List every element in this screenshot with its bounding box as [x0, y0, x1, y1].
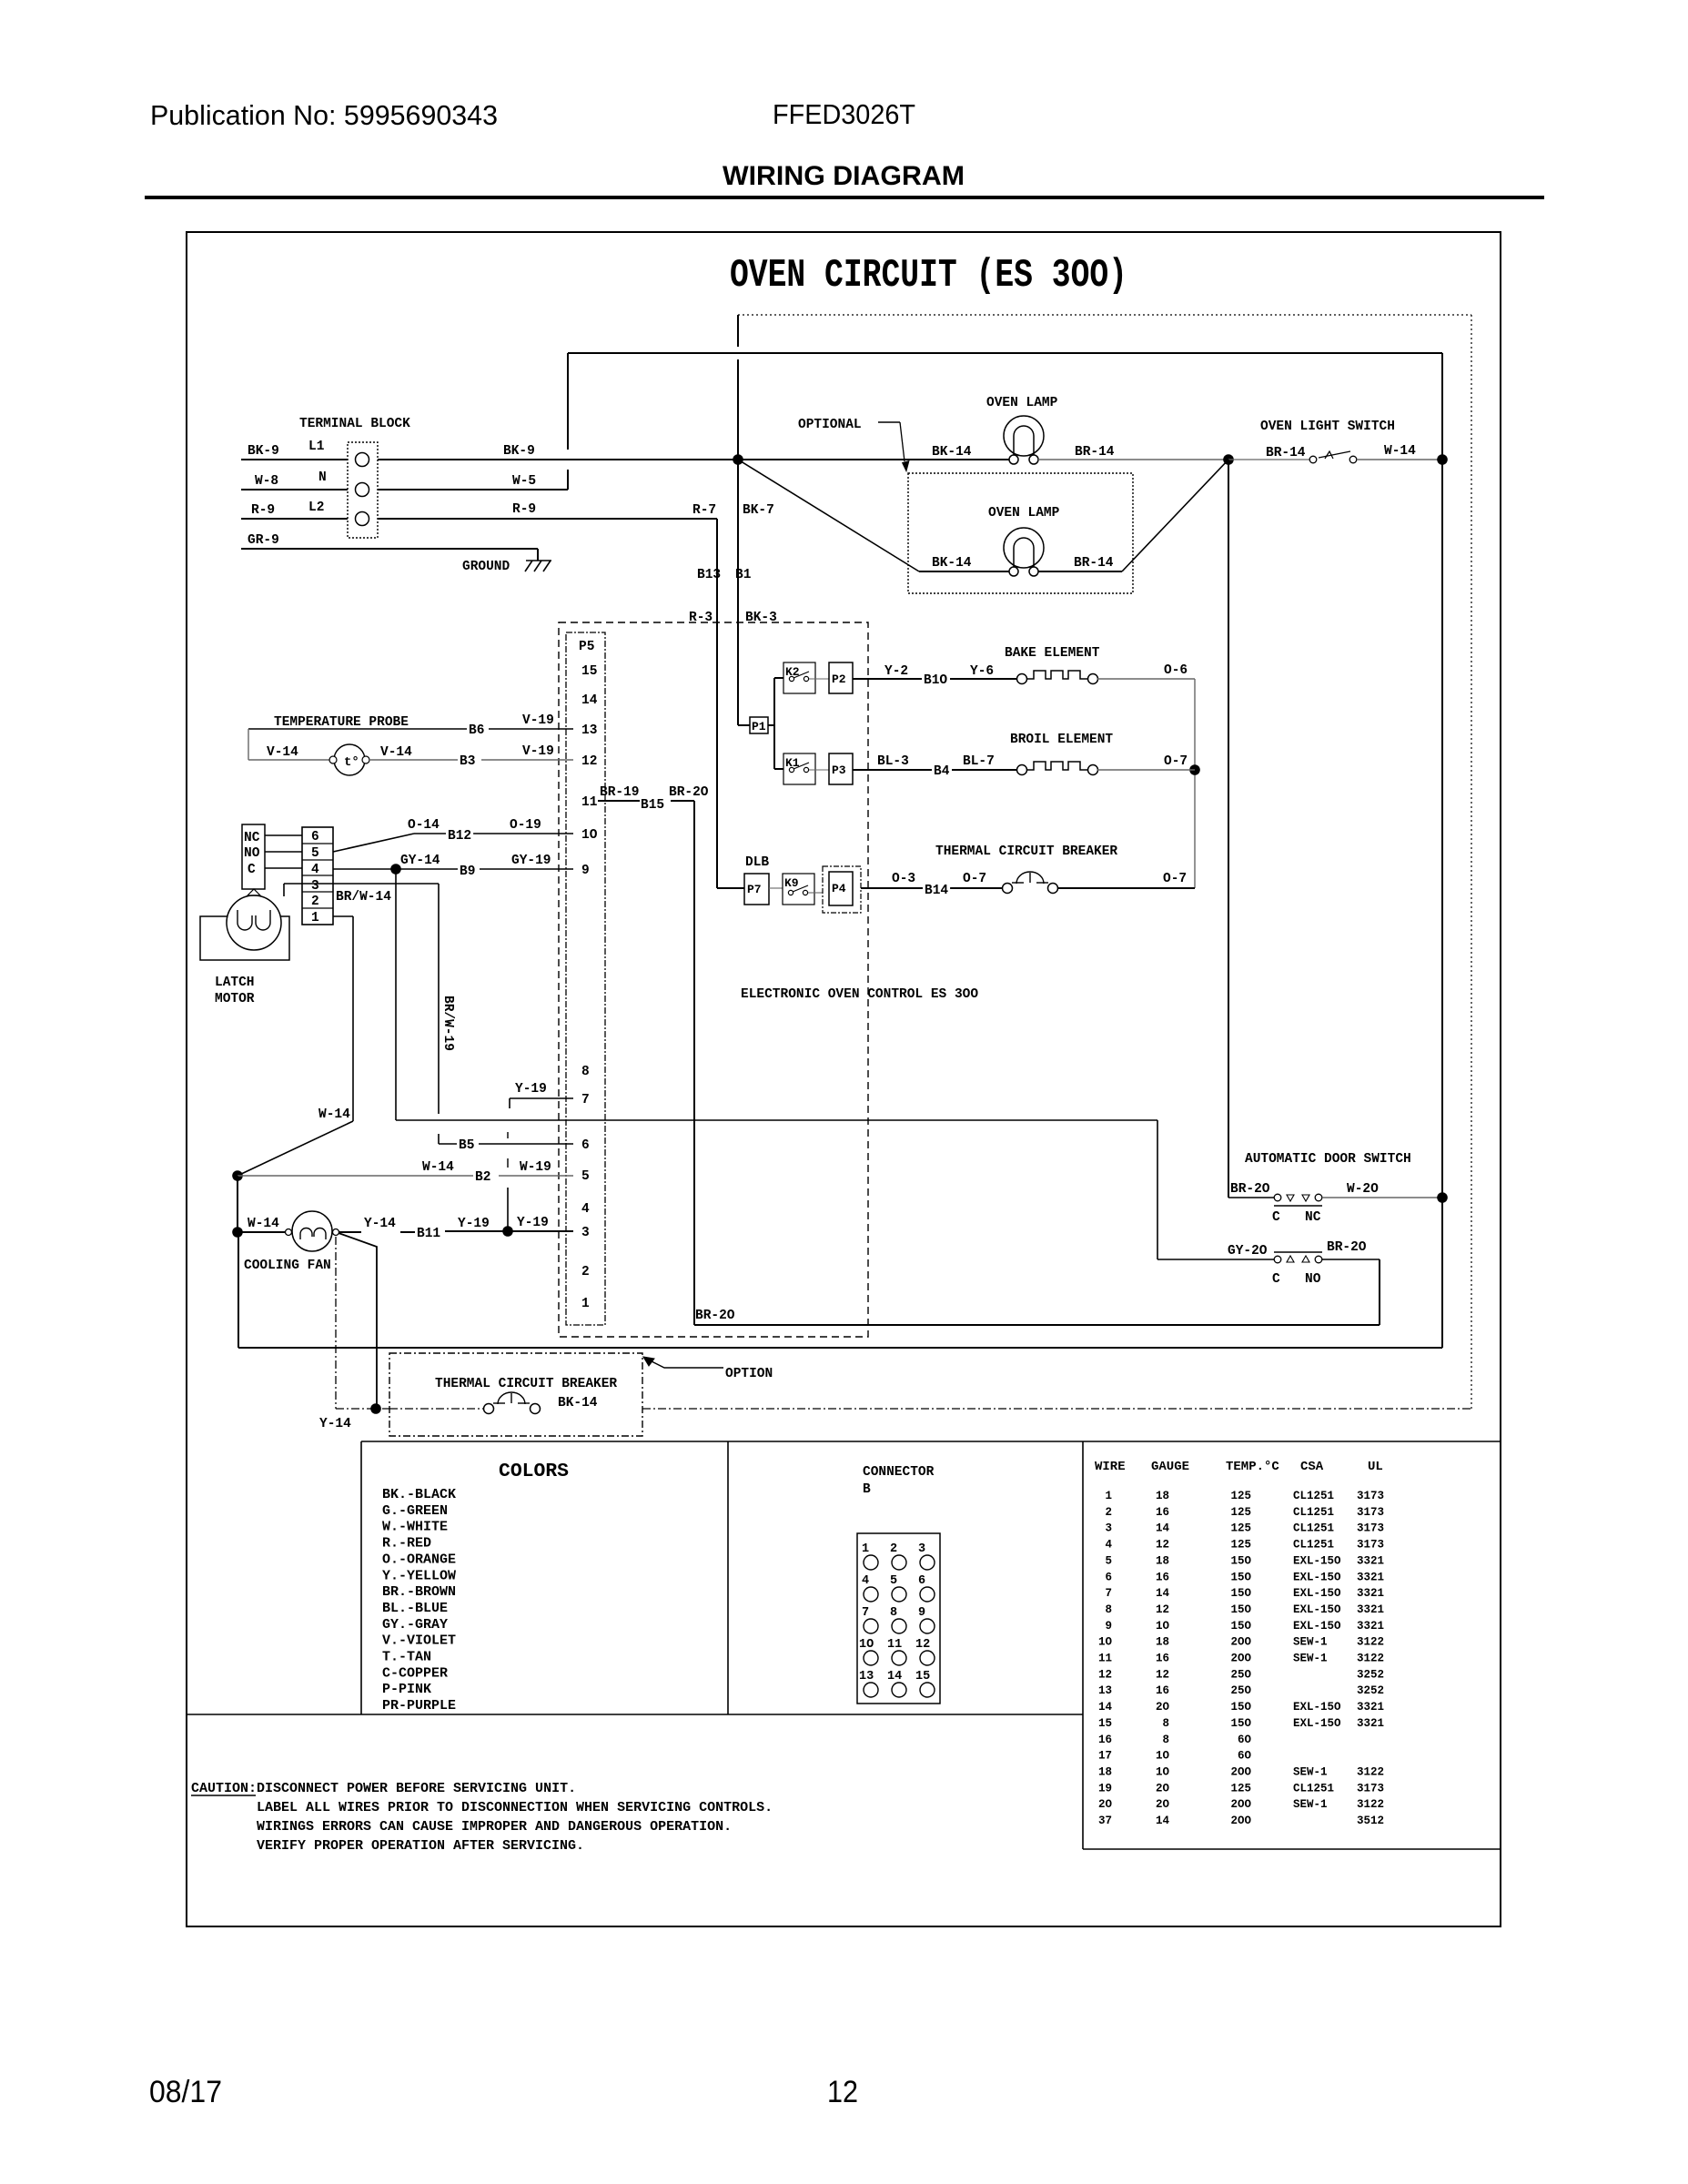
svg-text:P7: P7: [747, 883, 762, 896]
svg-text:B9: B9: [460, 864, 475, 879]
oven enclosure dash-dot bottom edge right part: [642, 1408, 1471, 1410]
header rule: [145, 196, 1544, 199]
ground symbol: [525, 561, 551, 571]
latch motor pin block: [302, 827, 333, 925]
svg-text:BR/W-19: BR/W-19: [440, 996, 455, 1051]
svg-text:EXL-15O: EXL-15O: [1293, 1620, 1341, 1633]
svg-text:1O: 1O: [581, 828, 598, 843]
wire W-14 drop to cooling fan row: [237, 1176, 238, 1232]
wire BK-9 from terminal block to node J1: [378, 459, 738, 460]
svg-text:GY.-GRAY: GY.-GRAY: [382, 1617, 448, 1633]
wire W-5 neutral from terminal block: [378, 489, 568, 490]
svg-text:G.-GREEN: G.-GREEN: [382, 1503, 448, 1519]
svg-text:NC: NC: [244, 831, 260, 845]
svg-text:NC: NC: [1305, 1210, 1321, 1225]
wire W-14 / B2 / W-19 to pin 5: [238, 1175, 473, 1177]
oven enclosure dashed box right edge: [1471, 315, 1472, 1409]
wire W-5 neutral riser with crossover gap at BK-9: [567, 470, 569, 490]
svg-text:3321: 3321: [1357, 1587, 1384, 1600]
svg-text:GAUGE: GAUGE: [1151, 1460, 1189, 1474]
svg-text:COOLING FAN: COOLING FAN: [244, 1259, 331, 1273]
svg-text:LATCH: LATCH: [215, 976, 255, 990]
svg-text:P2: P2: [832, 672, 846, 686]
svg-text:2: 2: [581, 1265, 590, 1279]
svg-text:GY-2O: GY-2O: [1228, 1244, 1268, 1259]
node J3 junction neutral: [1437, 454, 1448, 465]
wire GY-20 to door switch NO: [1157, 1259, 1274, 1260]
svg-text:SEW-1: SEW-1: [1293, 1765, 1328, 1778]
svg-text:6: 6: [581, 1138, 590, 1153]
svg-text:B13: B13: [697, 568, 721, 582]
svg-text:7: 7: [581, 1093, 590, 1107]
wire C to pin 4: [265, 867, 302, 869]
svg-text:B15: B15: [641, 798, 664, 813]
wire BR-20 from B15: [671, 800, 694, 802]
svg-text:Y-14: Y-14: [319, 1417, 351, 1431]
lower panel top border: [361, 1441, 1501, 1442]
wire K9 to P4: [808, 892, 823, 894]
svg-text:15: 15: [581, 664, 597, 679]
colors connector divider: [727, 1441, 729, 1714]
wire neutral left riser to node J8: [238, 1232, 239, 1348]
svg-text:B14: B14: [925, 884, 948, 898]
wire O-14 / O-19 to pin 10: [414, 833, 446, 834]
svg-text:W-2O: W-2O: [1347, 1182, 1379, 1197]
terminal block TB1: [348, 442, 378, 538]
wire BR/W-14 from latch motor through pin 3: [284, 883, 439, 885]
wire O-7 from broil element: [1097, 769, 1195, 771]
label B14 splice: [923, 884, 950, 896]
svg-text:BR-14: BR-14: [1266, 446, 1306, 460]
svg-text:R-9: R-9: [251, 503, 275, 518]
wire Y-14 diagonal drop from fan: [339, 1233, 377, 1409]
wire NO to pin 5: [265, 851, 302, 853]
wire R-7 / R-3 drop to P7: [716, 519, 718, 888]
svg-text:GR-9: GR-9: [248, 533, 279, 548]
svg-text:1O: 1O: [1156, 1620, 1170, 1633]
wire O-6/O-7 combiner drop: [1194, 679, 1196, 888]
svg-text:BROIL ELEMENT: BROIL ELEMENT: [1010, 733, 1113, 747]
wire BR-20 drop from node J2: [1228, 460, 1229, 1198]
svg-text:125: 125: [1230, 1782, 1251, 1795]
svg-text:Y-2: Y-2: [884, 664, 908, 679]
svg-text:R.-RED: R.-RED: [382, 1536, 431, 1552]
svg-text:BK-14: BK-14: [932, 445, 972, 460]
wire B5 elbow to pin 6: [439, 1143, 457, 1145]
wire W-14 diagonal to node J7: [238, 1121, 353, 1176]
svg-text:11: 11: [581, 795, 598, 810]
colors panel left border: [360, 1441, 362, 1714]
svg-text:B6: B6: [469, 723, 484, 738]
svg-text:O-19: O-19: [510, 818, 541, 833]
svg-text:V-19: V-19: [522, 713, 554, 728]
wire BR-19 pin 11 to B15: [598, 800, 640, 802]
thermal circuit breaker CB1: [1003, 884, 1013, 894]
svg-text:Y-19: Y-19: [458, 1217, 490, 1231]
svg-text:ELECTRONIC OVEN CONTROL ES 3OO: ELECTRONIC OVEN CONTROL ES 3OO: [741, 987, 978, 1002]
svg-text:TEMP.°C: TEMP.°C: [1226, 1460, 1279, 1474]
node J2 junction BR-14: [1223, 454, 1234, 465]
svg-text:2O: 2O: [1098, 1798, 1113, 1811]
svg-text:N: N: [318, 470, 327, 485]
svg-text:P1: P1: [752, 720, 766, 733]
svg-text:25O: 25O: [1230, 1684, 1251, 1697]
svg-text:C: C: [1272, 1272, 1280, 1287]
cable bundle dashes: [507, 1132, 509, 1138]
svg-text:1: 1: [311, 911, 319, 925]
lower panel bottom border: [187, 1714, 1083, 1715]
svg-text:LABEL ALL WIRES PRIOR TO DISCO: LABEL ALL WIRES PRIOR TO DISCONNECTION W…: [257, 1800, 773, 1815]
svg-text:EXL-15O: EXL-15O: [1293, 1571, 1341, 1583]
wire BK-7 / BK-3 drop to P1: [737, 460, 739, 725]
svg-text:9: 9: [581, 864, 590, 878]
svg-text:W-14: W-14: [318, 1107, 350, 1122]
svg-text:K9: K9: [784, 876, 799, 890]
svg-text:CAUTION:DISCONNECT POWER BEFOR: CAUTION:DISCONNECT POWER BEFORE SERVICIN…: [191, 1781, 576, 1796]
svg-text:14: 14: [1098, 1701, 1113, 1714]
svg-text:GY-14: GY-14: [400, 854, 440, 868]
svg-text:3122: 3122: [1357, 1636, 1384, 1649]
svg-text:TERMINAL BLOCK: TERMINAL BLOCK: [299, 417, 410, 431]
svg-text:1O: 1O: [1098, 1636, 1113, 1649]
svg-text:125: 125: [1230, 1539, 1251, 1552]
svg-text:BK-7: BK-7: [743, 503, 774, 518]
wire V-14 / B3 / V-19 to pin 12: [369, 759, 458, 761]
svg-text:B1O: B1O: [924, 673, 947, 688]
connector P5 dotted box: [566, 632, 605, 1325]
door switch NO contact: [1274, 1256, 1281, 1263]
svg-text:P-PINK: P-PINK: [382, 1682, 431, 1697]
node J6 junction GY-14: [390, 864, 401, 875]
wire BK-14 diagonal to optional lamp: [738, 460, 919, 571]
node J9 junction Y-14 option: [370, 1403, 381, 1414]
svg-text:4: 4: [581, 1202, 590, 1217]
svg-text:18: 18: [1098, 1765, 1112, 1778]
svg-text:2OO: 2OO: [1230, 1765, 1251, 1778]
svg-text:2O: 2O: [1156, 1798, 1170, 1811]
svg-text:7: 7: [862, 1606, 869, 1620]
connector P2: [829, 662, 853, 693]
svg-text:O-7: O-7: [963, 872, 986, 886]
svg-text:8: 8: [1105, 1603, 1112, 1616]
svg-text:17: 17: [1098, 1750, 1112, 1763]
svg-text:OPTION: OPTION: [725, 1367, 773, 1381]
svg-text:2O: 2O: [1156, 1782, 1170, 1795]
svg-text:6: 6: [918, 1574, 925, 1588]
wire K2 to P2: [809, 678, 829, 680]
svg-text:BR-2O: BR-2O: [1327, 1240, 1367, 1255]
svg-text:B12: B12: [448, 829, 471, 844]
wire pin 1 to W-14 riser: [333, 915, 353, 917]
svg-text:5: 5: [581, 1169, 590, 1184]
svg-text:12: 12: [1156, 1668, 1169, 1681]
connector P3: [829, 753, 853, 784]
svg-text:BK-3: BK-3: [745, 611, 777, 625]
svg-text:TEMPERATURE PROBE: TEMPERATURE PROBE: [274, 715, 409, 730]
svg-text:08/17: 08/17: [149, 2075, 222, 2109]
svg-text:BK.-BLACK: BK.-BLACK: [382, 1487, 456, 1502]
connector P7: [744, 874, 769, 905]
wire O-3 from P4 to thermal circuit breaker: [861, 887, 1003, 889]
svg-text:8: 8: [1162, 1734, 1169, 1746]
svg-text:1: 1: [862, 1542, 869, 1556]
svg-text:3252: 3252: [1357, 1684, 1384, 1697]
svg-text:O-3: O-3: [892, 872, 915, 886]
svg-text:V-14: V-14: [380, 745, 412, 760]
node J1 junction BK: [733, 454, 743, 465]
svg-text:11: 11: [887, 1638, 902, 1652]
svg-text:EXL-15O: EXL-15O: [1293, 1603, 1341, 1616]
svg-text:2OO: 2OO: [1230, 1653, 1251, 1665]
oven light switch SW1: [1309, 456, 1317, 463]
svg-text:CL1251: CL1251: [1293, 1782, 1334, 1795]
svg-text:PR-PURPLE: PR-PURPLE: [382, 1698, 456, 1714]
svg-text:O-7: O-7: [1163, 872, 1187, 886]
svg-text:V.-VIOLET: V.-VIOLET: [382, 1633, 456, 1649]
svg-text:EXL-15O: EXL-15O: [1293, 1717, 1341, 1730]
svg-text:L2: L2: [308, 500, 324, 515]
svg-text:CL1251: CL1251: [1293, 1490, 1334, 1502]
svg-text:5: 5: [1105, 1554, 1112, 1567]
svg-text:5: 5: [890, 1574, 897, 1588]
svg-text:3122: 3122: [1357, 1798, 1384, 1811]
svg-text:15O: 15O: [1230, 1587, 1251, 1600]
svg-text:14: 14: [1156, 1815, 1170, 1827]
svg-text:25O: 25O: [1230, 1668, 1251, 1681]
svg-text:WIRINGS ERRORS CAN CAUSE IMPRO: WIRINGS ERRORS CAN CAUSE IMPROPER AND DA…: [257, 1819, 732, 1835]
oven lamp 1: [1004, 416, 1044, 456]
svg-text:16: 16: [1156, 1571, 1169, 1583]
svg-text:6: 6: [311, 830, 319, 844]
oven lamp 2 (optional): [1004, 528, 1044, 568]
svg-text:18: 18: [1156, 1554, 1169, 1567]
wire B5 to pin 6: [479, 1143, 573, 1145]
svg-text:125: 125: [1230, 1506, 1251, 1519]
svg-text:12: 12: [1156, 1603, 1169, 1616]
svg-text:W-14: W-14: [1384, 444, 1416, 459]
svg-text:O.-ORANGE: O.-ORANGE: [382, 1552, 456, 1567]
svg-text:15O: 15O: [1230, 1717, 1251, 1730]
option thermal circuit breaker dash-dot box: [389, 1353, 642, 1436]
svg-text:MOTOR: MOTOR: [215, 992, 255, 1006]
svg-text:COLORS: COLORS: [499, 1461, 569, 1482]
wire Y-19 to node J10: [445, 1230, 503, 1232]
svg-text:BR-2O: BR-2O: [1230, 1182, 1270, 1197]
wire BR-20 riser to NO contact: [1379, 1259, 1380, 1325]
oven enclosure dash-dot bottom edge left part: [336, 1408, 389, 1410]
wire BL-7 to broil element: [952, 769, 1017, 771]
svg-text:BR.-BROWN: BR.-BROWN: [382, 1584, 456, 1600]
oven enclosure dash-dot left edge (to cooling fan): [335, 1237, 337, 1409]
svg-text:O-7: O-7: [1164, 754, 1188, 769]
svg-text:12: 12: [581, 754, 597, 769]
svg-text:2OO: 2OO: [1230, 1815, 1251, 1827]
svg-text:O-6: O-6: [1164, 663, 1188, 678]
svg-text:3122: 3122: [1357, 1653, 1384, 1665]
wire GR-9 drop to ground: [537, 549, 539, 561]
label B10 splice: [922, 673, 949, 686]
svg-text:THERMAL CIRCUIT BREAKER: THERMAL CIRCUIT BREAKER: [935, 844, 1117, 859]
svg-text:3321: 3321: [1357, 1603, 1384, 1616]
svg-text:BK-14: BK-14: [558, 1396, 598, 1410]
svg-text:WIRING DIAGRAM: WIRING DIAGRAM: [723, 161, 965, 191]
svg-text:GROUND: GROUND: [462, 560, 510, 574]
svg-text:GY-19: GY-19: [511, 854, 551, 868]
latch switch NC NO C box: [242, 824, 265, 889]
wire BK-14 to oven lamp 1: [738, 459, 1014, 460]
outer frame: [187, 232, 1501, 1926]
wire BR/W-19 drop with crossover gap: [438, 884, 440, 1114]
svg-text:t°: t°: [344, 755, 359, 770]
wire BR-20 from NO contact: [1322, 1259, 1380, 1260]
svg-text:19: 19: [1098, 1782, 1112, 1795]
svg-text:14: 14: [887, 1670, 902, 1683]
wire neutral right drop: [1441, 353, 1443, 1198]
svg-text:6O: 6O: [1238, 1734, 1252, 1746]
wire BR-20 to door switch C: [1228, 1197, 1274, 1198]
svg-text:SEW-1: SEW-1: [1293, 1653, 1328, 1665]
svg-text:16: 16: [1098, 1734, 1112, 1746]
svg-text:4: 4: [862, 1574, 869, 1588]
svg-text:Y-6: Y-6: [970, 664, 994, 679]
wire Y-14 from fan to B11: [339, 1231, 361, 1233]
svg-text:15: 15: [915, 1670, 930, 1683]
svg-text:3321: 3321: [1357, 1701, 1384, 1714]
svg-text:15: 15: [1098, 1717, 1112, 1730]
wire W-20 to neutral: [1322, 1197, 1442, 1198]
svg-text:BR-2O: BR-2O: [669, 785, 709, 800]
thermal circuit breaker CB2: [484, 1404, 494, 1414]
svg-text:15O: 15O: [1230, 1603, 1251, 1616]
svg-text:1O: 1O: [859, 1638, 874, 1652]
svg-text:13: 13: [581, 723, 597, 738]
svg-text:6: 6: [1105, 1571, 1112, 1583]
wire Y-19 pin 7 elbow: [510, 1097, 573, 1099]
svg-text:R-7: R-7: [692, 503, 716, 518]
svg-text:DLB: DLB: [745, 855, 769, 870]
wire GY-14 from pin 4 to node J6: [333, 868, 458, 870]
svg-text:3173: 3173: [1357, 1782, 1384, 1795]
svg-text:B11: B11: [417, 1227, 440, 1241]
svg-text:18: 18: [1156, 1636, 1169, 1649]
wire GR-9 ground lead: [241, 548, 538, 550]
svg-text:O-14: O-14: [408, 818, 440, 833]
connector P4 with dash-dot outer box: [823, 866, 861, 913]
svg-text:14: 14: [1156, 1587, 1170, 1600]
svg-text:OVEN LAMP: OVEN LAMP: [988, 506, 1060, 521]
svg-text:18: 18: [1156, 1490, 1169, 1502]
svg-text:11: 11: [1098, 1653, 1112, 1665]
oven enclosure dashed box top edge: [738, 314, 1471, 316]
svg-text:4: 4: [1105, 1539, 1112, 1552]
relay K9: [783, 874, 814, 905]
label B12 splice: [446, 829, 473, 842]
svg-text:15O: 15O: [1230, 1571, 1251, 1583]
svg-text:BR-19: BR-19: [600, 785, 640, 800]
svg-text:125: 125: [1230, 1522, 1251, 1535]
label B2 splice: [473, 1170, 492, 1183]
svg-text:W-5: W-5: [512, 474, 536, 489]
svg-text:Publication No: 5995690343: Publication No: 5995690343: [150, 99, 498, 131]
svg-text:1O: 1O: [1156, 1750, 1170, 1763]
svg-text:CL1251: CL1251: [1293, 1539, 1334, 1552]
optional oven lamp dotted box: [908, 473, 1133, 593]
svg-text:2OO: 2OO: [1230, 1798, 1251, 1811]
svg-text:C: C: [248, 863, 256, 877]
svg-text:8: 8: [581, 1065, 590, 1079]
svg-text:SEW-1: SEW-1: [1293, 1636, 1328, 1649]
svg-text:VERIFY PROPER OPERATION AFTER: VERIFY PROPER OPERATION AFTER SERVICING.: [257, 1838, 584, 1854]
svg-text:SEW-1: SEW-1: [1293, 1798, 1328, 1811]
svg-text:2: 2: [890, 1542, 897, 1556]
wire R-9 left lead: [241, 518, 348, 520]
svg-text:9: 9: [918, 1606, 925, 1620]
wire V-14 probe left with riser: [248, 729, 249, 760]
label B4 splice: [932, 764, 951, 777]
svg-text:2OO: 2OO: [1230, 1636, 1251, 1649]
svg-text:W-14: W-14: [422, 1160, 454, 1175]
wire BL-3 from P3: [853, 769, 932, 771]
wire bundle to node J10: [507, 1188, 509, 1231]
svg-text:3122: 3122: [1357, 1765, 1384, 1778]
svg-text:AUTOMATIC DOOR SWITCH: AUTOMATIC DOOR SWITCH: [1245, 1152, 1411, 1167]
wire W-14 to cooling fan: [238, 1231, 286, 1233]
wire P1 to relay trunk: [768, 724, 774, 726]
svg-text:W-8: W-8: [255, 474, 278, 489]
node J4 junction 0-7: [1189, 764, 1200, 775]
wire R-9 from terminal block to R-7 riser: [378, 518, 717, 520]
svg-text:BR-14: BR-14: [1074, 556, 1114, 571]
svg-text:2O: 2O: [1156, 1701, 1170, 1714]
svg-text:B3: B3: [460, 754, 475, 769]
wire BK-7 riser above node J1 with crossover gap: [737, 315, 739, 347]
node J5 junction W-20 neutral: [1437, 1192, 1448, 1203]
wire BK-14 optional lamp feed: [919, 571, 1014, 572]
svg-text:37: 37: [1098, 1815, 1112, 1827]
svg-text:BL.-BLUE: BL.-BLUE: [382, 1601, 448, 1616]
temperature probe RT1: [334, 744, 365, 775]
svg-text:L1: L1: [308, 440, 325, 454]
svg-text:3: 3: [311, 879, 319, 894]
svg-text:3173: 3173: [1357, 1490, 1384, 1502]
svg-text:OVEN CIRCUIT (ES 3OO): OVEN CIRCUIT (ES 3OO): [730, 253, 1127, 298]
svg-text:12: 12: [827, 2075, 858, 2109]
svg-text:1: 1: [1105, 1490, 1112, 1502]
wire Y-19 to pin 3: [508, 1230, 573, 1232]
svg-text:B2: B2: [475, 1170, 490, 1185]
svg-text:3321: 3321: [1357, 1554, 1384, 1567]
svg-text:3321: 3321: [1357, 1620, 1384, 1633]
svg-text:BR-2O: BR-2O: [695, 1309, 735, 1323]
svg-text:T.-TAN: T.-TAN: [382, 1650, 431, 1665]
svg-text:WIRE: WIRE: [1095, 1460, 1126, 1474]
wire Y-6 to bake element: [950, 678, 1017, 680]
svg-text:NO: NO: [244, 846, 260, 861]
svg-text:V-19: V-19: [522, 744, 554, 759]
svg-text:Y.-YELLOW: Y.-YELLOW: [382, 1568, 456, 1583]
svg-text:3512: 3512: [1357, 1815, 1384, 1827]
svg-text:EXL-15O: EXL-15O: [1293, 1554, 1341, 1567]
svg-text:BR/W-14: BR/W-14: [336, 890, 391, 905]
svg-text:P3: P3: [832, 763, 846, 777]
svg-text:EXL-15O: EXL-15O: [1293, 1701, 1341, 1714]
svg-text:BK-9: BK-9: [503, 444, 535, 459]
relay K1: [783, 753, 815, 784]
svg-text:B4: B4: [934, 764, 950, 779]
svg-text:R-3: R-3: [689, 611, 713, 625]
svg-text:P5: P5: [579, 640, 594, 654]
wire motor to pin3 riser: [283, 884, 285, 896]
